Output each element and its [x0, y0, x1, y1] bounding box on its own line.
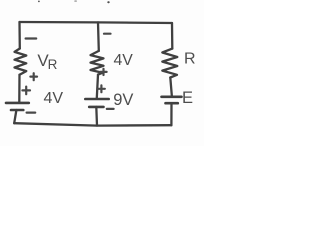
polarity plus bottom of resistor 4V: [100, 69, 106, 75]
wire top: [20, 22, 173, 23]
label V_R: [37, 51, 57, 72]
wire middle resistor to battery: [97, 75, 98, 98]
label 4V (left battery): [44, 90, 64, 107]
wire left resistor to battery: [18, 75, 21, 102]
polarity plus top of battery 9V: [98, 85, 105, 92]
wire middle vertical top: [97, 22, 100, 51]
polarity minus top of resistor 4V: [104, 33, 111, 35]
svg-text:4V: 4V: [114, 52, 134, 69]
wire bottom: [14, 123, 171, 125]
resistor R2 (4V drop): [91, 51, 104, 75]
wire right vertical top: [171, 23, 174, 49]
label R (right resistor): [184, 51, 196, 68]
polarity minus bottom of battery 4V: [27, 111, 36, 113]
battery B1 4V: [6, 103, 29, 110]
label 9V (middle battery): [113, 91, 133, 109]
polarity minus bottom of battery 9V: [107, 108, 114, 110]
battery B2 9V: [85, 99, 108, 107]
wire middle battery to bottom: [95, 107, 98, 126]
wire left vertical top: [18, 22, 21, 49]
polarity plus bottom of resistor VR: [30, 73, 37, 80]
svg-text:E: E: [182, 89, 193, 107]
svg-text:4V: 4V: [44, 90, 64, 107]
polarity plus top of battery 4V: [22, 87, 30, 95]
svg-text:R: R: [48, 57, 58, 72]
resistor R3 (R): [162, 49, 177, 78]
resistor R1 (V_R): [15, 49, 27, 75]
wire right resistor to battery: [170, 78, 172, 96]
svg-text:9V: 9V: [113, 91, 133, 109]
wire right battery to bottom: [170, 103, 172, 125]
label E (right battery): [182, 89, 193, 107]
battery B3 E: [162, 97, 182, 103]
svg-text:R: R: [184, 51, 196, 68]
wire left battery to bottom: [14, 110, 16, 123]
stray scan marks at top edge: [38, 0, 110, 3]
polarity minus top of resistor VR: [26, 37, 37, 39]
label 4V (middle resistor): [114, 52, 134, 69]
